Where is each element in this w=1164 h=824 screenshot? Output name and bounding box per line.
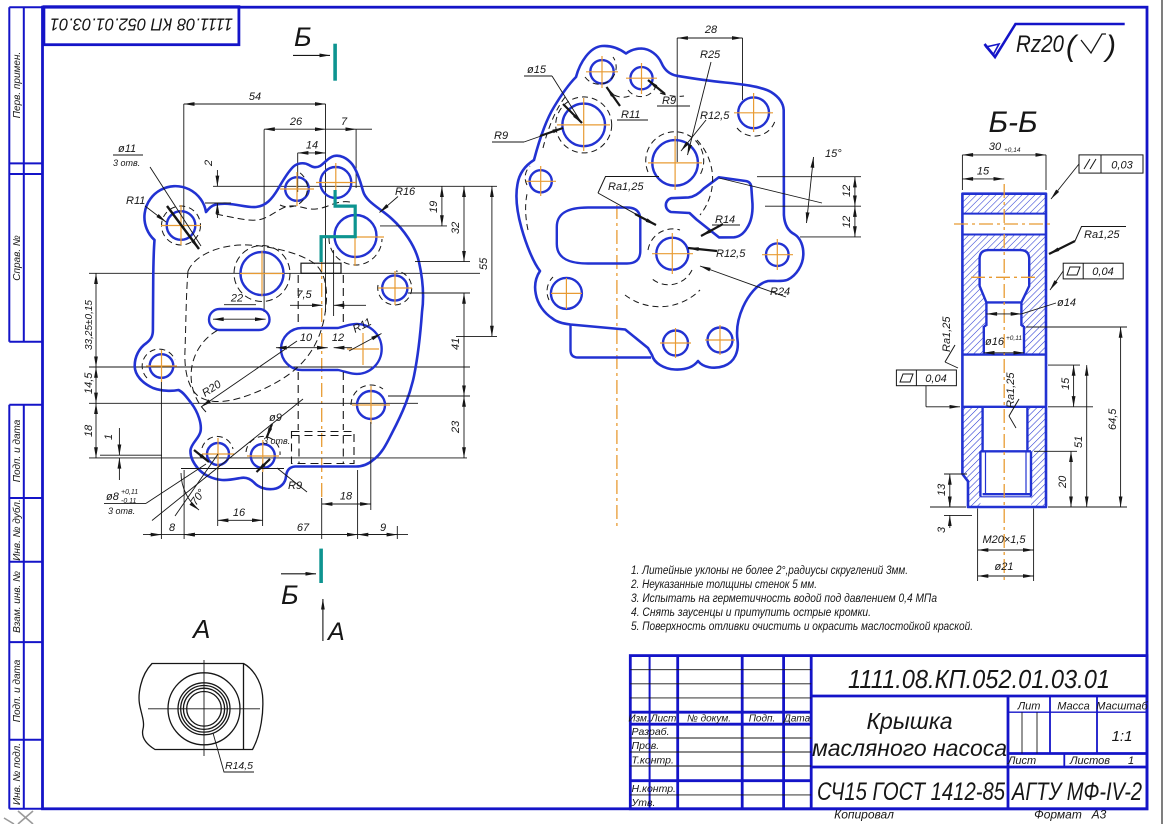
bottom dim ext verticals: [100, 382, 397, 539]
svg-text:3: 3: [936, 526, 948, 533]
svg-text:Подп. и дата: Подп. и дата: [12, 419, 23, 482]
svg-text:Ra1,25: Ra1,25: [608, 181, 644, 193]
hole T1: [590, 60, 613, 83]
R9 top leader: [648, 80, 665, 94]
svg-text:64,5: 64,5: [1107, 408, 1119, 430]
R11 kidney leader: [349, 334, 382, 352]
svg-text:7: 7: [341, 116, 348, 128]
15 deg dim: [719, 178, 822, 203]
thin rows of title block: [630, 670, 1037, 795]
svg-text:Лист: Лист: [1007, 755, 1036, 767]
hole A phi11: [167, 211, 196, 240]
svg-text:Масштаб: Масштаб: [1096, 701, 1148, 713]
section mark B bottom: [281, 549, 321, 610]
svg-text:+0,14: +0,14: [1004, 147, 1021, 154]
svg-text:1: 1: [103, 434, 115, 440]
svg-text:67: 67: [297, 522, 310, 534]
svg-text:ø21: ø21: [995, 561, 1014, 573]
dim 13: [944, 473, 967, 475]
dim 2: [216, 170, 218, 186]
centerline upper bore: [971, 276, 1038, 278]
dashed arc bottom-left R20: [191, 330, 218, 412]
hatched body: [962, 194, 1046, 507]
hole H bottom: [251, 444, 275, 468]
svg-text:Взам. инв. №: Взам. инв. №: [12, 571, 23, 633]
right lobe hole F2: [766, 243, 789, 266]
svg-text:3. Испытать на герметичность в: 3. Испытать на герметичность водой под д…: [631, 593, 937, 605]
svg-text:ø16: ø16: [985, 336, 1005, 348]
svg-text:54: 54: [249, 91, 261, 103]
hole T3: [738, 97, 769, 128]
boss top small rect: [301, 263, 341, 273]
dim 30: [962, 154, 1046, 156]
view A outline: [139, 664, 263, 750]
TITLE BLOCK: [630, 656, 1147, 809]
dim 22: [213, 318, 266, 320]
svg-text:3 отв.: 3 отв.: [113, 158, 140, 168]
svg-text:Б-Б: Б-Б: [988, 106, 1037, 139]
centerline vertical: [1003, 184, 1005, 582]
svg-text:55: 55: [478, 257, 490, 270]
margin labels: [11, 52, 23, 805]
centerline groove: [954, 223, 1054, 225]
R20 leader: [201, 341, 297, 407]
dim 18 left: [95, 403, 97, 458]
svg-text:19: 19: [428, 201, 440, 213]
hole I left: [150, 354, 174, 378]
dim 1: [118, 428, 120, 455]
dim 55: [491, 186, 493, 336]
svg-text:8: 8: [169, 522, 176, 534]
dim 14: [298, 152, 326, 154]
svg-text:ø11: ø11: [118, 143, 136, 155]
svg-text:Подп. и дата: Подп. и дата: [12, 659, 23, 722]
svg-text:СЧ15 ГОСТ 1412-85: СЧ15 ГОСТ 1412-85: [817, 778, 1005, 806]
svg-text:А: А: [191, 614, 210, 644]
dashed cavity circle around big circle: [234, 246, 290, 302]
cut mark bottom-left: [4, 811, 33, 824]
dim 26: [264, 128, 325, 130]
svg-text:R9: R9: [494, 130, 508, 142]
svg-text:R12,5: R12,5: [700, 110, 730, 122]
foot step: [571, 325, 652, 358]
dim 33,25: [95, 273, 97, 367]
lower bore: [981, 407, 983, 452]
hole T2: [630, 67, 652, 89]
svg-text:Ra1,25: Ra1,25: [941, 316, 953, 352]
svg-text:Крышка: Крышка: [866, 708, 952, 734]
lower circle M2: [656, 238, 688, 270]
svg-text:M20×1,5: M20×1,5: [982, 534, 1026, 546]
svg-text:Формат: Формат: [1034, 808, 1082, 822]
hole D R16: [335, 215, 377, 257]
dashed boss arcs: [162, 206, 201, 245]
R14,5 leader: [213, 733, 254, 772]
page right edge: [1161, 0, 1163, 824]
svg-text:1111.08 КП 052.01.03.01: 1111.08 КП 052.01.03.01: [50, 15, 233, 35]
svg-text:Справ. №: Справ. №: [12, 235, 23, 281]
svg-text:Пров.: Пров.: [632, 740, 660, 752]
dim 19: [441, 186, 443, 226]
svg-text:9: 9: [380, 522, 386, 534]
mid slot band lines: [962, 353, 1046, 355]
svg-text:1111.08.КП.052.01.03.01: 1111.08.КП.052.01.03.01: [848, 664, 1110, 694]
slot 22: [209, 309, 270, 330]
main outline: [516, 46, 803, 370]
bottom hole B2: [663, 331, 688, 356]
svg-text:30: 30: [989, 141, 1002, 153]
phi11 leader: [150, 167, 201, 246]
svg-text:Н.контр.: Н.контр.: [632, 783, 676, 795]
hole F lower-right: [357, 391, 385, 419]
ext line x356: [355, 129, 357, 188]
big left circle: [562, 104, 605, 147]
svg-text:АГТУ МФ-IV-2: АГТУ МФ-IV-2: [1010, 778, 1142, 806]
big slot: [557, 208, 641, 264]
view A centerlines: [148, 708, 260, 710]
phi16 bore: [983, 326, 985, 355]
long ext line y367: [89, 366, 470, 368]
long ext line y273: [89, 272, 480, 274]
R14 leader: [701, 224, 723, 236]
R16 leader: [380, 197, 399, 213]
svg-text:10: 10: [300, 332, 313, 344]
svg-text:26: 26: [289, 116, 303, 128]
phi14 dim: [986, 313, 1021, 315]
svg-text:ø15: ø15: [527, 64, 547, 76]
R25 leader: [688, 62, 712, 155]
dim 54: [184, 103, 326, 105]
R12,5 lower leader: [688, 248, 717, 251]
dim 7: [326, 128, 357, 130]
svg-text:ø14: ø14: [1057, 297, 1076, 309]
svg-text:R12,5: R12,5: [716, 248, 746, 260]
big center circle: [241, 252, 284, 295]
Rz20 surface mark: [985, 24, 1125, 63]
ext line 28 right: [742, 38, 744, 100]
R11 top leader: [607, 87, 621, 106]
small left hole: [530, 170, 552, 192]
orange hole crosses: [146, 163, 412, 472]
svg-text:масляного насоса: масляного насоса: [812, 735, 1007, 761]
svg-text:18: 18: [340, 491, 353, 503]
svg-text:Перв. примен.: Перв. примен.: [12, 52, 23, 118]
top stamp box: [44, 7, 239, 45]
svg-text:20: 20: [1057, 475, 1069, 489]
phi8 leader: [146, 464, 206, 503]
dim 20: [1034, 450, 1077, 452]
svg-text:+0,11: +0,11: [1006, 335, 1022, 342]
svg-text:R14,5: R14,5: [225, 760, 253, 772]
dashed top wavy inner line: [216, 202, 350, 221]
svg-text:15: 15: [1060, 377, 1072, 390]
svg-text:14: 14: [306, 140, 318, 152]
dim 28: [677, 37, 742, 39]
dim 16 bottom: [218, 519, 263, 521]
svg-text:Ra1,25: Ra1,25: [1005, 372, 1017, 408]
svg-text:R16: R16: [395, 186, 416, 198]
dim 15 top: [962, 178, 1004, 180]
thread section: [980, 450, 1031, 452]
ext line x183: [183, 104, 185, 230]
svg-text:R24: R24: [770, 286, 790, 298]
svg-text:2: 2: [203, 160, 215, 167]
svg-text:22: 22: [230, 293, 243, 305]
svg-text:1: 1: [1128, 755, 1134, 767]
bottom hole B1: [708, 328, 733, 353]
svg-text:Б: Б: [281, 580, 299, 610]
ext line x297: [297, 153, 299, 192]
left lobe hole L1: [551, 278, 582, 309]
dim 15 right: [1048, 364, 1080, 366]
dashed inner offset top: [543, 96, 566, 148]
svg-text:15: 15: [977, 166, 990, 178]
svg-text:3 отв.: 3 отв.: [108, 506, 135, 516]
ext line group center: [325, 104, 327, 312]
svg-text:1. Литейные уклоны не более 2°: 1. Литейные уклоны не более 2°,радиусы с…: [631, 565, 908, 577]
svg-text:13: 13: [936, 483, 948, 496]
svg-text:16: 16: [233, 507, 246, 519]
view A arrow: [191, 599, 345, 646]
svg-text:7,5: 7,5: [296, 289, 312, 301]
tol frame 0,04 left: [896, 370, 956, 386]
svg-text:№ докум.: № докум.: [687, 714, 731, 725]
M20x1,5 dim: [977, 509, 979, 582]
tab shape: [666, 177, 753, 237]
dashed boss arcs: [525, 57, 775, 307]
hole B top: [285, 177, 309, 201]
svg-text:0,04: 0,04: [1092, 266, 1113, 278]
svg-text:18: 18: [83, 424, 95, 437]
svg-text:Подп.: Подп.: [749, 714, 776, 725]
svg-text:2. Неуказанные толщины стенок: 2. Неуказанные толщины стенок 5 мм.: [630, 579, 817, 591]
tol frame 0,04 right: [1063, 263, 1123, 279]
svg-text:Инв. № дубл.: Инв. № дубл.: [11, 499, 23, 561]
dim 12b: [854, 206, 856, 237]
svg-text:12: 12: [841, 185, 853, 197]
R11 lobe leader: [145, 206, 166, 222]
dim 8 67 9 bottom: [143, 534, 408, 536]
R12,5 upper leader: [681, 120, 706, 151]
groove lines: [962, 213, 1046, 215]
dashed stem verticals: [292, 275, 355, 464]
svg-text:Листов: Листов: [1069, 755, 1110, 767]
upper bore: [980, 250, 1030, 302]
dashed cavity blob: [185, 245, 327, 402]
ext line 28 left: [676, 38, 678, 162]
teal section zigzag: [321, 190, 355, 262]
svg-text:Масса: Масса: [1057, 701, 1090, 713]
ext lines 12 12: [757, 176, 861, 178]
svg-text:А3: А3: [1091, 808, 1107, 822]
svg-text:Утв.: Утв.: [631, 797, 656, 809]
centerline vertical stem: [321, 258, 323, 500]
svg-text:51: 51: [1073, 436, 1085, 448]
svg-text:Инв. № подл.: Инв. № подл.: [12, 743, 23, 805]
svg-text:15°: 15°: [825, 148, 842, 160]
main outline: [135, 156, 423, 490]
hole C top: [320, 167, 351, 198]
R24 leader: [700, 266, 786, 297]
R9 leader: [257, 459, 271, 472]
dim 3: [944, 514, 972, 516]
70 deg: [175, 454, 218, 516]
svg-text:Изм.: Изм.: [628, 714, 649, 725]
svg-text:12: 12: [841, 216, 853, 228]
svg-text:ø8: ø8: [106, 491, 120, 503]
dim 64,5: [1026, 326, 1127, 328]
dim 18 bottom: [322, 503, 371, 505]
kidney slot: [281, 324, 382, 374]
technical notes: [630, 565, 973, 633]
svg-text:R14: R14: [715, 214, 735, 226]
svg-text:Разраб.: Разраб.: [632, 726, 670, 738]
dim 7,5: [290, 304, 323, 306]
svg-text:Rz20: Rz20: [1016, 31, 1065, 58]
svg-text:14,5: 14,5: [83, 372, 95, 394]
Ra1,25 flag: [598, 177, 659, 194]
dim 10 12: [276, 347, 328, 349]
svg-text:Копировал: Копировал: [834, 808, 894, 822]
tol frame 0,03: [1079, 155, 1143, 173]
svg-text:А: А: [326, 618, 345, 646]
centerline vertical: [616, 205, 618, 527]
outer profile: [962, 194, 1046, 507]
phi16 dim: [984, 352, 1024, 354]
dim 41: [463, 293, 465, 396]
svg-text:Дата: Дата: [783, 714, 811, 725]
orange crosses: [526, 56, 793, 358]
svg-text:12: 12: [332, 332, 344, 344]
svg-text:1:1: 1:1: [1112, 728, 1133, 745]
svg-text:0,04: 0,04: [925, 373, 946, 385]
svg-text:R9: R9: [662, 95, 676, 107]
Ra1,25 top right: [1075, 227, 1126, 242]
dim 32: [463, 186, 465, 261]
hole E right: [382, 275, 407, 300]
svg-text:R25: R25: [700, 49, 721, 61]
svg-text:28: 28: [704, 24, 718, 36]
svg-text:Лист: Лист: [650, 714, 677, 725]
section mark B top: [293, 22, 335, 81]
svg-text:Ra1,25: Ra1,25: [1084, 229, 1120, 241]
svg-text:Т.контр.: Т.контр.: [632, 755, 674, 767]
long ext line y458: [89, 457, 467, 459]
dim 14,5: [95, 367, 97, 403]
svg-text:0,03: 0,03: [1111, 160, 1133, 172]
svg-text:-0,11: -0,11: [121, 498, 137, 505]
svg-text:4. Снять заусенцы и притупить: 4. Снять заусенцы и притупить острые кро…: [631, 607, 871, 619]
dim 12a: [854, 177, 856, 207]
svg-text:+0,11: +0,11: [121, 489, 138, 496]
long ext line y403: [89, 402, 418, 404]
svg-text:Лит: Лит: [1017, 701, 1041, 713]
svg-text:Б: Б: [294, 22, 312, 52]
middle big circle M1: [652, 140, 698, 186]
centerline big circle: [263, 130, 265, 313]
view A circles: [168, 673, 240, 745]
svg-text:33,25±0,15: 33,25±0,15: [84, 300, 95, 350]
dim 51: [1048, 406, 1093, 408]
svg-text:23: 23: [450, 420, 462, 434]
svg-text:R11: R11: [126, 195, 145, 207]
svg-text:R11: R11: [621, 109, 640, 121]
dim 23: [463, 396, 465, 458]
hole G bottom-left: [207, 443, 229, 465]
phi14 bore: [985, 302, 987, 326]
svg-text:32: 32: [450, 222, 462, 234]
svg-text:41: 41: [450, 338, 462, 350]
svg-text:5. Поверхность отливки очистит: 5. Поверхность отливки очистить и окраси…: [631, 621, 973, 633]
top face ext line: [213, 185, 497, 187]
title block texts: [628, 664, 1148, 822]
